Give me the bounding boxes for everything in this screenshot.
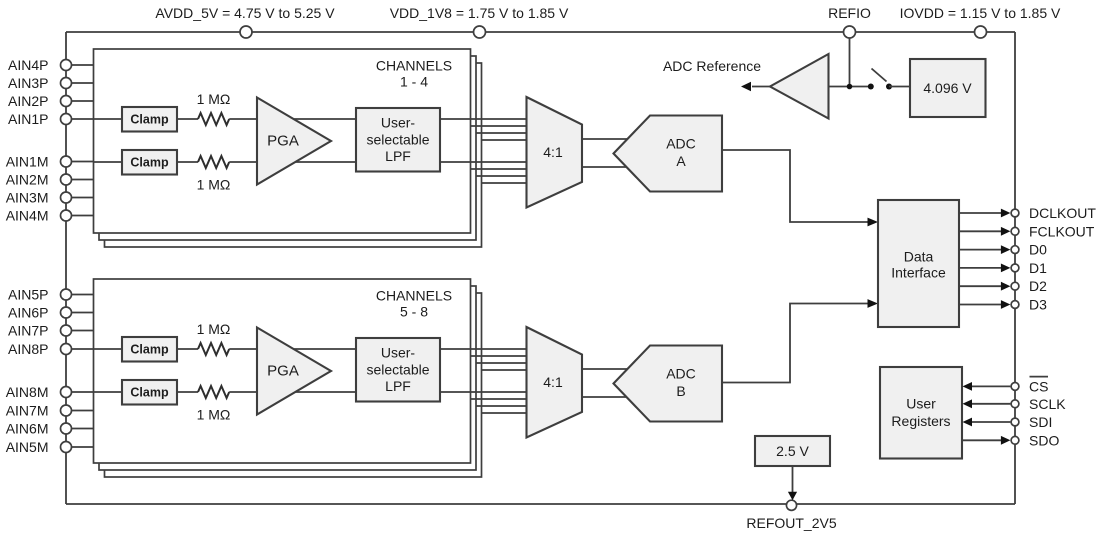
svg-text:AIN3P: AIN3P (8, 75, 48, 91)
LPF block (5-8) (356, 338, 440, 402)
pin AIN1M (61, 156, 72, 167)
svg-text:AIN5M: AIN5M (6, 439, 49, 455)
pin AIN6P (61, 307, 72, 318)
wire input pin to clamp (P) (94, 118, 122, 120)
wire channel 4 to mux (P) (482, 139, 527, 141)
svg-text:ADC: ADC (666, 366, 696, 382)
pin AIN2P (61, 96, 72, 107)
pin AVDD_5V (240, 26, 252, 38)
wire channel 3 to mux (P) (476, 132, 527, 134)
arrow SCLK (963, 399, 973, 408)
svg-text:AIN2M: AIN2M (6, 172, 49, 188)
block CHANNELS 5-8 stacked box 2 (99, 286, 476, 470)
wire input pin to clamp (M) (94, 161, 122, 163)
wire channel 4 to mux (P) (482, 369, 527, 371)
wire AIN8P to channel block (72, 348, 123, 350)
wire clamp to resistor (M) (177, 391, 198, 393)
wire LPF to mux (M) (440, 161, 527, 163)
wire resistor to LPF through PGA (M) (229, 391, 356, 393)
svg-text:DCLKOUT: DCLKOUT (1029, 205, 1096, 221)
pin AIN5P (61, 289, 72, 300)
pin AIN6M (61, 423, 72, 434)
wire channel 2 to mux (M) (471, 398, 527, 400)
svg-text:D3: D3 (1029, 297, 1047, 313)
wire LPF to mux (P) (440, 348, 527, 350)
wire CS (967, 385, 1010, 387)
wire D1 (959, 267, 1004, 269)
resistor 1 Mohm (M path 5-8) (198, 386, 229, 398)
wire SCLK (967, 403, 1010, 405)
arrow CS (963, 382, 973, 391)
arrow into data interface from ADC A (868, 218, 879, 227)
svg-text:AIN7P: AIN7P (8, 323, 48, 339)
wire channel 3 to mux (M) (476, 175, 527, 177)
arrow D0 (1001, 245, 1011, 254)
wire LPF to mux (M) (440, 391, 527, 393)
pin SCLK (1011, 400, 1019, 408)
overline on CS (1030, 376, 1049, 378)
wire resistor to LPF through PGA (P) (229, 348, 356, 350)
arrow SDO (1001, 436, 1011, 445)
ADC B (614, 346, 723, 422)
wire channel 2 to mux (P) (471, 355, 527, 357)
wire reference buffer output (752, 86, 770, 88)
svg-text:REFIO: REFIO (828, 5, 871, 21)
svg-text:4:1: 4:1 (543, 144, 563, 160)
wire left analog input bus (65, 32, 67, 504)
wire AIN1P to channel block (72, 118, 123, 120)
pin AIN4M (61, 210, 72, 221)
pin AIN3P (61, 78, 72, 89)
wire resistor to LPF through PGA (M) (229, 161, 356, 163)
wire AIN8M to channel block (72, 391, 123, 393)
arrow to REFOUT_2V5 (788, 492, 797, 501)
pin VDD_1V8 (474, 26, 486, 38)
svg-text:A: A (676, 153, 686, 169)
wire AIN6M to channel block (72, 428, 95, 430)
wire AIN6P to channel block (72, 312, 95, 314)
svg-text:AIN2P: AIN2P (8, 93, 48, 109)
resistor 1 Mohm (P path 1-4) (198, 113, 229, 125)
wire FCLKOUT (959, 230, 1004, 232)
svg-text:4.096 V: 4.096 V (923, 80, 972, 96)
svg-text:PGA: PGA (267, 133, 299, 150)
svg-text:FCLKOUT: FCLKOUT (1029, 223, 1095, 239)
svg-text:B: B (676, 383, 685, 399)
wire clamp to resistor (M) (177, 161, 198, 163)
svg-text:AIN8M: AIN8M (6, 384, 49, 400)
clamp block (P path 5-8) (122, 337, 177, 362)
block CHANNELS 5-8 stacked box 3 (105, 293, 482, 477)
wire REFIO to reference node (849, 38, 851, 87)
svg-text:Clamp: Clamp (130, 386, 169, 400)
wire right IOVDD rail (1014, 32, 1016, 504)
svg-text:AIN4P: AIN4P (8, 57, 48, 73)
wire AIN7M to channel block (72, 410, 95, 412)
wire AIN4P to channel block (72, 64, 95, 66)
svg-text:1 MΩ: 1 MΩ (197, 91, 231, 107)
svg-text:Clamp: Clamp (130, 113, 169, 127)
op-amp reference buffer (770, 54, 829, 119)
svg-text:Interface: Interface (891, 264, 946, 280)
wire LPF to mux (P) (440, 118, 527, 120)
svg-text:selectable: selectable (366, 362, 429, 378)
svg-text:ADC: ADC (666, 136, 696, 152)
reference 2.5 V block (755, 436, 830, 466)
wire AIN2M to channel block (72, 179, 95, 181)
wire mux to ADC B (P) (582, 368, 640, 370)
clamp block (M path 1-4) (122, 150, 177, 175)
pin AIN1P (61, 114, 72, 125)
wire input pin to clamp (M) (94, 391, 122, 393)
svg-text:User: User (906, 396, 936, 412)
block CHANNELS 1-4 stacked box 2 (99, 56, 476, 240)
pin AIN7P (61, 325, 72, 336)
wire top supply rail (66, 31, 1015, 33)
resistor 1 Mohm (P path 5-8) (198, 343, 229, 355)
svg-text:User-: User- (381, 115, 416, 131)
wire AIN3M to channel block (72, 197, 95, 199)
arrow into data interface from ADC B (868, 299, 879, 308)
wire SDO (962, 439, 1004, 441)
svg-text:4:1: 4:1 (543, 374, 563, 390)
switch contact right (886, 84, 892, 90)
reference 4.096 V block (910, 59, 986, 117)
arrow D3 (1001, 300, 1011, 309)
wire 2.5V to REFOUT_2V5 (792, 466, 794, 492)
wire D3 (959, 304, 1004, 306)
svg-text:AIN7M: AIN7M (6, 403, 49, 419)
wire clamp to resistor (P) (177, 118, 198, 120)
pin AIN8P (61, 344, 72, 355)
svg-text:AIN1M: AIN1M (6, 154, 49, 170)
svg-text:5 - 8: 5 - 8 (400, 304, 428, 320)
svg-text:selectable: selectable (366, 132, 429, 148)
wire SDI (967, 421, 1010, 423)
wire resistor to LPF through PGA (P) (229, 118, 356, 120)
wire channel 2 to mux (M) (471, 168, 527, 170)
junction REFIO node (847, 84, 853, 90)
wire mux to ADC B (M) (582, 396, 640, 398)
svg-text:ADC Reference: ADC Reference (663, 58, 761, 74)
svg-text:1 MΩ: 1 MΩ (197, 177, 231, 193)
pin DCLKOUT (1011, 209, 1019, 217)
svg-text:REFOUT_2V5: REFOUT_2V5 (746, 515, 836, 531)
wire channel 4 to mux (M) (482, 182, 527, 184)
arrow D1 (1001, 264, 1011, 273)
wire channel 4 to mux (M) (482, 412, 527, 414)
block CHANNELS 5-8 main box (94, 279, 471, 463)
wire AIN5M to channel block (72, 446, 95, 448)
pin D0 (1011, 246, 1019, 254)
block CHANNELS 1-4 stacked box 3 (105, 63, 482, 247)
wire mux to ADC A (M) (582, 166, 640, 168)
block Data Interface (878, 200, 959, 327)
LPF block (1-4) (356, 108, 440, 172)
mux 4:1 (A) (527, 97, 583, 208)
mux 4:1 (B) (527, 327, 583, 438)
resistor 1 Mohm (M path 1-4) (198, 156, 229, 168)
svg-text:D0: D0 (1029, 242, 1047, 258)
svg-text:Clamp: Clamp (130, 156, 169, 170)
wire AIN4M to channel block (72, 215, 95, 217)
wire ADC B to data interface (722, 304, 873, 383)
svg-text:AIN4M: AIN4M (6, 208, 49, 224)
wire D2 (959, 285, 1004, 287)
pin D1 (1011, 264, 1019, 272)
block User Registers (880, 367, 962, 459)
pin SDI (1011, 418, 1019, 426)
svg-text:SDI: SDI (1029, 414, 1052, 430)
svg-text:VDD_1V8 = 1.75 V to 1.85 V: VDD_1V8 = 1.75 V to 1.85 V (390, 5, 569, 21)
block CHANNELS 1-4 main box (94, 49, 471, 233)
pin D3 (1011, 301, 1019, 309)
pin SDO (1011, 436, 1019, 444)
op-amp PGA (5-8) (257, 328, 331, 415)
pin FCLKOUT (1011, 227, 1019, 235)
svg-text:1 - 4: 1 - 4 (400, 74, 428, 90)
wire D0 (959, 249, 1004, 251)
svg-text:Data: Data (904, 248, 934, 264)
wire ADC A to data interface (722, 150, 873, 222)
pin AIN4P (61, 60, 72, 71)
svg-text:PGA: PGA (267, 363, 299, 380)
svg-text:CS: CS (1029, 378, 1048, 394)
svg-text:SCLK: SCLK (1029, 396, 1066, 412)
wire AIN1M to channel block (72, 161, 123, 163)
wire channel 3 to mux (M) (476, 405, 527, 407)
svg-text:Clamp: Clamp (130, 343, 169, 357)
pin IOVDD (975, 26, 987, 38)
pin REFIO (844, 26, 856, 38)
wire AIN5P to channel block (72, 294, 95, 296)
pin AIN3M (61, 192, 72, 203)
pin AIN5M (61, 442, 72, 453)
wire buffer to switch (829, 86, 872, 88)
wire input pin to clamp (P) (94, 348, 122, 350)
ADC A (614, 116, 723, 192)
wire bottom rail to REFOUT_2V5 (66, 503, 1015, 505)
wire mux to ADC A (P) (582, 138, 640, 140)
wire AIN3P to channel block (72, 82, 95, 84)
clamp block (P path 1-4) (122, 107, 177, 132)
clamp block (M path 5-8) (122, 380, 177, 405)
switch contact left (868, 84, 874, 90)
pin REFOUT_2V5 (786, 500, 796, 510)
pin AIN8M (61, 387, 72, 398)
wire clamp to resistor (P) (177, 348, 198, 350)
wire channel 2 to mux (P) (471, 125, 527, 127)
wire channel 3 to mux (P) (476, 362, 527, 364)
svg-text:1 MΩ: 1 MΩ (197, 407, 231, 423)
svg-text:SDO: SDO (1029, 432, 1059, 448)
arrow SDI (963, 418, 973, 427)
wire AIN7P to channel block (72, 330, 95, 332)
pin AIN2M (61, 174, 72, 185)
op-amp PGA (1-4) (257, 98, 331, 185)
pin AIN7M (61, 405, 72, 416)
wire switch to 4.096V reference (889, 86, 910, 88)
svg-text:D1: D1 (1029, 260, 1047, 276)
svg-text:CHANNELS: CHANNELS (376, 58, 452, 74)
svg-text:AVDD_5V = 4.75 V to 5.25 V: AVDD_5V = 4.75 V to 5.25 V (155, 5, 335, 21)
wire AIN2P to channel block (72, 100, 95, 102)
svg-text:LPF: LPF (385, 148, 411, 164)
switch lever (872, 69, 887, 82)
svg-text:AIN8P: AIN8P (8, 341, 48, 357)
arrow DCLKOUT (1001, 209, 1011, 218)
svg-text:LPF: LPF (385, 378, 411, 394)
svg-text:AIN3M: AIN3M (6, 190, 49, 206)
arrow D2 (1001, 282, 1011, 291)
pin D2 (1011, 282, 1019, 290)
arrow FCLKOUT (1001, 227, 1011, 236)
svg-text:Registers: Registers (891, 413, 950, 429)
svg-text:AIN6P: AIN6P (8, 305, 48, 321)
svg-text:D2: D2 (1029, 278, 1047, 294)
arrow ADC reference out (741, 82, 751, 91)
svg-text:IOVDD = 1.15 V to 1.85 V: IOVDD = 1.15 V to 1.85 V (900, 5, 1061, 21)
svg-text:AIN5P: AIN5P (8, 287, 48, 303)
svg-text:1 MΩ: 1 MΩ (197, 321, 231, 337)
pin CS (1011, 383, 1019, 391)
svg-text:2.5 V: 2.5 V (776, 443, 809, 459)
svg-text:CHANNELS: CHANNELS (376, 288, 452, 304)
svg-text:AIN6M: AIN6M (6, 421, 49, 437)
wire DCLKOUT (959, 212, 1004, 214)
svg-text:AIN1P: AIN1P (8, 111, 48, 127)
svg-text:User-: User- (381, 345, 416, 361)
